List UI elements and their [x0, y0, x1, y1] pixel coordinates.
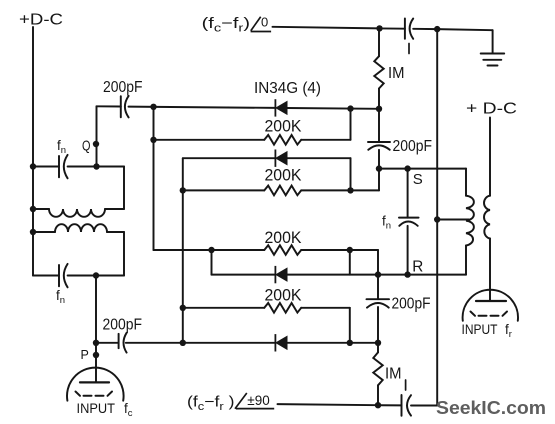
svg-text:+ D-C: + D-C	[466, 101, 517, 118]
svg-text:Q: Q	[82, 138, 91, 155]
svg-text:IM: IM	[388, 65, 405, 82]
svg-text:(fc−fr): (fc−fr)	[202, 15, 250, 35]
svg-text:SeekIC.com: SeekIC.com	[436, 397, 546, 418]
svg-text:P: P	[81, 348, 89, 362]
svg-text:200pF: 200pF	[103, 317, 143, 334]
svg-text:fr: fr	[505, 322, 512, 340]
svg-text:fn: fn	[382, 214, 391, 232]
svg-text:±90: ±90	[247, 392, 270, 408]
svg-text:200K: 200K	[265, 165, 302, 184]
svg-text:(fc−fr ): (fc−fr )	[187, 394, 235, 414]
svg-text:IM: IM	[385, 366, 402, 383]
svg-text:IN34G (4): IN34G (4)	[254, 80, 321, 97]
svg-text:fn: fn	[57, 138, 66, 156]
svg-text:0: 0	[261, 15, 268, 30]
svg-text:INPUT: INPUT	[77, 400, 116, 416]
svg-text:R: R	[412, 258, 423, 275]
svg-text:200pF: 200pF	[103, 79, 143, 96]
svg-text:200pF: 200pF	[392, 296, 431, 313]
svg-text:200K: 200K	[265, 228, 302, 247]
svg-text:fn: fn	[56, 288, 65, 306]
svg-text:200pF: 200pF	[393, 138, 433, 155]
svg-text:200K: 200K	[265, 116, 302, 135]
svg-text:INPUT: INPUT	[462, 321, 498, 337]
svg-text:200K: 200K	[265, 285, 302, 304]
svg-text:+D-C: +D-C	[19, 12, 63, 29]
svg-text:fc: fc	[124, 401, 133, 419]
svg-text:S: S	[413, 171, 423, 188]
